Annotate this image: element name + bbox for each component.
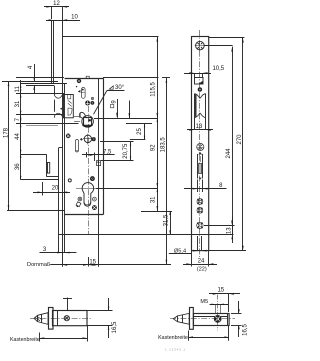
screw S4 <box>197 207 203 213</box>
dimension 244 <box>226 47 233 236</box>
cylinder extension <box>96 188 157 190</box>
dimension Kastenbreite BL <box>10 326 87 343</box>
dimension dia5.4 <box>169 236 207 254</box>
faceplate outline <box>192 37 209 251</box>
case top extension <box>103 77 170 79</box>
detent marks <box>76 86 81 93</box>
svg-text:24: 24 <box>198 258 205 264</box>
centerline BR v <box>217 295 219 331</box>
latch head BR <box>173 313 189 324</box>
svg-text:16,5: 16,5 <box>112 321 118 333</box>
faceplate BR <box>190 308 194 330</box>
dimension 7.5 <box>82 150 115 161</box>
dimension 270 <box>209 38 247 251</box>
screw S5 <box>197 222 203 228</box>
bolt slot <box>198 152 203 180</box>
centerline BL <box>30 318 92 320</box>
cylinder hole <box>82 183 94 207</box>
dimension 20.75 <box>100 142 134 161</box>
svg-text:Kastenbreite: Kastenbreite <box>158 335 188 341</box>
pin D <box>91 101 94 104</box>
screw O <box>93 197 97 201</box>
dimension 13 <box>226 217 233 243</box>
svg-text:Kastenbreite: Kastenbreite <box>10 337 40 343</box>
dimension 31 left <box>15 94 21 115</box>
faceplate rivet <box>60 108 62 110</box>
svg-text:270: 270 <box>237 134 243 145</box>
spring housing <box>64 95 74 118</box>
stud BL <box>63 298 72 311</box>
cam disc <box>83 134 93 145</box>
svg-text:92: 92 <box>151 144 157 151</box>
svg-text:7,5: 7,5 <box>103 150 112 156</box>
screw S1 <box>195 40 206 51</box>
screw A <box>77 79 81 83</box>
svg-text:10,5: 10,5 <box>212 66 224 72</box>
hole K <box>68 179 71 182</box>
screw1 extension <box>205 45 233 47</box>
pocket bottom line <box>7 210 65 212</box>
svg-text:(22): (22) <box>197 266 207 272</box>
chain extensions <box>2 78 67 94</box>
profile wall <box>21 154 59 176</box>
centerline BR h <box>170 318 235 320</box>
svg-text:36: 36 <box>15 163 21 170</box>
dimension Kastenbreite BR <box>158 325 229 341</box>
svg-text:13: 13 <box>226 227 232 234</box>
dimension 11 <box>15 84 21 94</box>
screw F <box>66 134 70 138</box>
dimension 24 <box>183 251 217 273</box>
svg-text:Dornmaß: Dornmaß <box>27 262 51 268</box>
svg-text:20,75: 20,75 <box>123 143 129 159</box>
square hole <box>76 202 81 207</box>
screw M <box>92 206 96 210</box>
dimension 10.5 <box>184 66 225 78</box>
dimension 20 <box>33 182 70 196</box>
svg-text:10: 10 <box>71 15 78 21</box>
nut extension <box>94 118 157 120</box>
dimension 36 <box>15 154 21 180</box>
dimension 25 <box>126 123 152 140</box>
svg-text:Ø5,4: Ø5,4 <box>174 248 186 254</box>
case BL <box>53 311 88 326</box>
svg-text:178: 178 <box>4 127 10 138</box>
svg-text:31: 31 <box>151 196 157 203</box>
svg-text:13: 13 <box>196 124 203 130</box>
svg-text:25: 25 <box>137 128 143 135</box>
svg-text:15: 15 <box>217 288 224 294</box>
case top notch <box>86 76 89 78</box>
dimension 3 <box>40 247 77 254</box>
dimension 7 <box>15 115 21 124</box>
extension 211 <box>141 211 172 213</box>
screw S2b <box>197 143 204 150</box>
svg-text:20: 20 <box>52 186 59 192</box>
dimension sq9 <box>111 99 118 118</box>
dimension Dornmass <box>27 215 171 268</box>
dimension 8 <box>184 180 227 193</box>
left chain line <box>20 80 22 180</box>
svg-text:31,5: 31,5 <box>164 214 170 226</box>
dimension 10 <box>46 15 80 22</box>
latch head BL <box>34 313 48 325</box>
svg-text:115,5: 115,5 <box>150 82 156 97</box>
profile top edge <box>62 36 158 38</box>
dimension 115.5 <box>150 37 158 211</box>
svg-text:31: 31 <box>15 100 21 107</box>
faceplate centerline <box>199 30 201 257</box>
profile face <box>59 148 63 253</box>
leader E <box>129 101 131 119</box>
lock case <box>65 78 104 215</box>
faceplate top extension <box>209 37 245 39</box>
label 30deg <box>94 85 125 114</box>
svg-text:244: 244 <box>226 148 232 159</box>
screw S3 <box>197 199 203 205</box>
svg-text:16,5: 16,5 <box>242 324 248 336</box>
profile slot <box>21 179 59 181</box>
dimension 15 BR <box>209 288 240 313</box>
svg-text:1 . 1 2 3 4 5 . 1: 1 . 1 2 3 4 5 . 1 <box>165 348 185 352</box>
dimension 183.5 <box>160 78 167 265</box>
latch cutout upper <box>195 78 204 85</box>
svg-text:15: 15 <box>89 260 96 266</box>
svg-text:12: 12 <box>53 1 60 7</box>
latch cam <box>80 112 86 118</box>
latch cutout <box>194 94 205 130</box>
dimension 31 <box>151 188 159 211</box>
dimension 12 <box>44 1 69 36</box>
follower nut <box>82 116 94 128</box>
cylinder centerline h <box>76 188 96 190</box>
screw BL <box>64 316 69 321</box>
svg-text:44: 44 <box>15 133 21 140</box>
faceplate BL <box>49 308 54 330</box>
pin G <box>92 138 95 141</box>
latch rails <box>16 115 79 126</box>
dimension 44 <box>15 123 21 154</box>
screw L <box>90 177 94 181</box>
screw C <box>85 101 89 105</box>
block J <box>96 161 100 166</box>
dimension 15 label <box>89 260 96 266</box>
dimension 178 <box>4 81 10 210</box>
latch shaft <box>74 117 80 122</box>
dimension 13 cutout <box>187 124 213 131</box>
dimension M5 <box>200 299 228 313</box>
profile left edge <box>62 37 64 84</box>
dimension 92 <box>151 118 159 188</box>
screw N <box>78 197 82 201</box>
svg-text:11: 11 <box>15 85 21 92</box>
dimension 31.5 <box>164 211 171 234</box>
centerline <box>88 106 90 267</box>
dimension 16.5 BL <box>87 298 118 338</box>
detent H <box>80 138 83 141</box>
rod channel <box>54 86 62 118</box>
dimension 16.5 BR <box>231 301 248 337</box>
case BR <box>193 313 229 325</box>
part number text <box>165 348 185 352</box>
bottom extension line <box>59 234 234 236</box>
svg-text:183,5: 183,5 <box>160 137 166 153</box>
screw S2 <box>198 88 202 92</box>
connecting bar <box>52 21 54 84</box>
dimension 4 <box>28 64 35 94</box>
spring capsule <box>81 88 85 99</box>
slot I <box>75 140 78 152</box>
svg-text:M5: M5 <box>200 299 208 305</box>
faceplate edge <box>63 84 65 253</box>
M5 screw BR <box>214 316 221 323</box>
screw3 extension <box>204 225 235 227</box>
pin B <box>92 98 94 100</box>
